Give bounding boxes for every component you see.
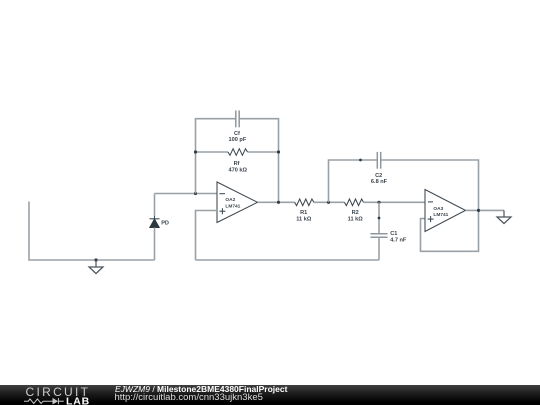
svg-text:OA2: OA2 [225, 197, 235, 203]
node: C2 tap junction [327, 201, 330, 204]
CircuitLab logo [0, 385, 100, 405]
node: feedback left mid [194, 150, 197, 153]
svg-text:LAB: LAB [66, 395, 90, 405]
op-amp OA3 [425, 190, 466, 232]
photodiode PD [150, 194, 160, 261]
footer caption line 1 [115, 384, 287, 394]
ground G2 [497, 210, 511, 223]
wire: C1 branch upper [378, 202, 380, 234]
wire: left dangling vertical and bottom-left run [29, 202, 155, 261]
capacitor C2 [377, 152, 380, 169]
svg-text:R2: R2 [352, 210, 359, 216]
wire: OA2 minus input [155, 193, 218, 195]
wire: C1 branch lower [378, 237, 380, 260]
node: C2 wire joint [359, 159, 362, 162]
footer bar [0, 385, 540, 405]
resistor Rf [228, 149, 248, 156]
node: C1 tap junction [377, 201, 380, 204]
wire: Rf right lead [248, 151, 279, 153]
svg-text:R1: R1 [300, 210, 307, 216]
svg-text:OA3: OA3 [433, 206, 443, 212]
wire: C2 loop top right and right vertical [381, 160, 479, 210]
wire: OA3 plus feedback loop [421, 210, 479, 251]
svg-text:11 kΩ: 11 kΩ [296, 217, 312, 223]
wire: R2 to OA3 minus [364, 201, 425, 203]
svg-text:11 kΩ: 11 kΩ [348, 217, 364, 223]
footer caption line 2 [115, 392, 263, 403]
wire: OA2 output to R1 [258, 201, 295, 203]
node: output feedback junction [277, 201, 280, 204]
svg-text:PD: PD [161, 221, 169, 227]
resistor R1 [295, 199, 314, 206]
wire: R1 to R2 [314, 201, 345, 203]
svg-text:Rf: Rf [234, 161, 240, 167]
op-amp OA2 [217, 182, 258, 223]
capacitor Cf [236, 111, 239, 128]
wire: feedback left vertical and top left [196, 119, 236, 194]
node: output junction [477, 209, 480, 212]
wire: Rf left lead [196, 151, 229, 153]
svg-text:4.7 nF: 4.7 nF [390, 237, 407, 243]
svg-text:470 kΩ: 470 kΩ [229, 168, 248, 174]
node: feedback right mid [277, 150, 280, 153]
svg-text:LM741: LM741 [225, 203, 240, 209]
ground G1 [89, 258, 103, 273]
wire: feedback top right and right vertical [239, 119, 278, 203]
svg-text:C1: C1 [390, 231, 397, 237]
node: minus input junction [194, 192, 197, 195]
wire: C2 loop left vertical and top left [329, 160, 378, 202]
capacitor C1 [370, 234, 387, 237]
wire: bottom mid run [196, 259, 380, 261]
svg-text:100 pF: 100 pF [229, 137, 247, 143]
node: C1 wire joint [378, 217, 381, 220]
svg-text:Cf: Cf [234, 131, 240, 137]
resistor R2 [344, 199, 363, 206]
wire: OA3 output [466, 209, 505, 211]
svg-text:LM741: LM741 [433, 212, 448, 218]
svg-text:6.8 nF: 6.8 nF [371, 179, 388, 185]
wire: OA2 plus input down [196, 211, 218, 261]
